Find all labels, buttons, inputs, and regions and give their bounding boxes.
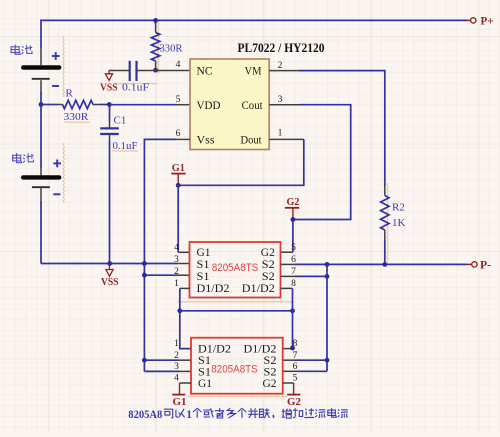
svg-text:1: 1 [186,409,192,421]
wire D net horizontal [180,310,293,312]
battery BT1 label 电池 [11,45,20,55]
terminal P- tick [466,263,471,265]
wire G1 down to U2 pin4 [177,185,179,252]
wire cap to VSS top [109,70,129,72]
battery BT2 plus sign [53,162,61,164]
svg-text:8205A8: 8205A8 [128,409,162,421]
battery BT2 negative plate [32,186,50,188]
node top rail / 330R junction [153,18,158,23]
battery BT1 negative plate [32,78,50,80]
power port VSS bottom (triangle) [109,264,111,270]
terminal P+ tick [466,19,470,21]
svg-text:5: 5 [293,374,298,384]
compile mark battery BT2 [63,143,64,203]
compile mark under U3 [188,396,287,397]
battery BT1 positive plate [23,65,59,69]
svg-text:VDD: VDD [197,98,221,112]
op-amp U1 PL7022/HY2120 body [190,59,269,150]
terminal P- circle [472,262,477,267]
wire R2 bottom to P- rail [384,241,386,265]
wire branch to U3 pin7 [296,359,327,361]
node U3 pin8 connection [290,346,295,351]
svg-text:G2: G2 [261,247,275,259]
wire branch to U2 pin2 [144,274,178,276]
node 330R bottom / NC pin4 junction [153,68,158,73]
compile mark under VSS 0.1uF [114,83,157,84]
compile mark resistor R2 [387,183,388,263]
power port G1 bottom: bar [172,394,185,396]
node R / C1 / VDD junction [107,102,112,107]
svg-text:VM: VM [245,64,262,78]
wire C1 top lead [109,105,111,122]
wire S2 vertical down to U3 [326,264,328,371]
battery BT2 label 电池 [13,153,22,163]
svg-text:8: 8 [293,339,298,349]
svg-text:3: 3 [278,95,283,105]
wire U1 pin6 to S1 rail vertical [176,138,190,140]
svg-text:4: 4 [174,374,179,384]
wire U1 pin3 Cout net [269,104,300,106]
svg-text:D1/D2: D1/D2 [197,283,230,295]
capacitor C1 plates [100,127,119,129]
battery BT1 minus sign [52,85,59,87]
svg-text:Cout: Cout [242,98,264,112]
svg-text:6: 6 [291,255,296,265]
svg-text:S2: S2 [264,355,277,367]
wire U1 pin1 Dout net [269,138,304,140]
svg-text:S2: S2 [262,259,275,271]
node branch to U2 pin2 [142,273,147,278]
svg-text:G1: G1 [172,162,185,174]
svg-text:0.1uF: 0.1uF [122,82,149,94]
svg-text:5: 5 [291,243,296,253]
power port G2 bottom: bar [287,394,300,396]
svg-text:6: 6 [293,362,298,372]
wire U3 pin4 to G1 port [180,382,192,384]
svg-text:R: R [66,88,74,100]
wire junction down to battery2 [40,105,42,169]
terminal P+ circle [471,18,476,23]
svg-text:2: 2 [174,351,179,361]
svg-text:8205A8TS: 8205A8TS [211,364,258,376]
compile mark resistor 330R top [158,21,159,74]
wire U2 pin8 to D net [281,287,293,289]
battery BT2 minus sign [53,193,60,195]
wire VDD to chip pin 5 [109,104,176,106]
node battery middle junction [39,102,44,107]
svg-text:S2: S2 [264,366,277,378]
svg-text:6: 6 [176,129,181,139]
svg-text:7: 7 [293,351,298,361]
svg-text:7: 7 [291,267,296,277]
svg-text:1: 1 [278,128,283,138]
svg-text:S2: S2 [262,271,275,283]
svg-text:P-: P- [480,258,491,272]
wire P- rail from U2 pin6 [281,263,297,265]
svg-text:Vss: Vss [197,133,215,147]
power port G1 top: bar [171,173,185,175]
svg-text:G2: G2 [263,378,277,390]
power port G2 top: bar [285,207,299,209]
compile mark battery BT1 [63,36,64,97]
svg-text:G2: G2 [287,196,300,208]
svg-text:1: 1 [174,279,179,289]
battery BT2 positive plate [23,175,59,179]
wire U1 pin2 VM net [269,70,300,72]
compile mark under U2 [178,301,294,302]
svg-text:4: 4 [174,243,179,253]
svg-text:S1: S1 [197,271,210,283]
svg-text:330R: 330R [64,111,90,123]
resistor 330R vertical top: leads [155,20,157,24]
wire C1 bottom lead down to S1 rail [109,134,111,141]
node G2 junction [291,217,296,222]
power port VSS top (triangle) [108,71,110,74]
wire U2 pin7 to S2 vertical [281,275,297,277]
node P- rail / S2 vertical [325,262,330,267]
svg-text:G2: G2 [287,396,301,408]
wire G2 down to U2 pin5 [292,220,294,253]
svg-text:S1: S1 [198,355,211,367]
svg-text:VSS: VSS [101,277,119,288]
node D net right [290,308,295,313]
wire U2 pin1 D net [180,287,190,289]
svg-text:S1: S1 [197,259,210,271]
svg-text:3: 3 [174,255,179,265]
svg-text:330R: 330R [160,43,184,55]
node G1 junction [176,183,181,188]
capacitor 0.1uF top plates [129,61,131,81]
svg-text:4: 4 [176,60,181,70]
wire battery1 top lead [40,20,42,48]
wire to U3 pin6 [296,370,327,372]
compile mark under C1 0.1uF [112,150,138,151]
wire pin4 NC net [138,70,191,72]
svg-text:D1/D2: D1/D2 [242,283,275,295]
wire R left lead [41,104,57,106]
transistor U2 8205A8TS body [190,242,281,298]
svg-text:PL7022 / HY2120: PL7022 / HY2120 [238,41,325,55]
svg-text:3: 3 [174,362,179,372]
transistor U3 8205A8TS body [191,338,283,394]
svg-text:VSS: VSS [100,83,118,94]
svg-text:1K: 1K [392,217,406,229]
svg-text:NC: NC [197,64,213,78]
svg-text:C1: C1 [114,115,127,127]
node D net left [177,308,182,313]
resistor 330R vertical zigzag [151,33,159,62]
power port G1 top: stem [177,174,179,186]
wire battery1 to battery2 [40,80,42,93]
wire branch to U3 pin2 [144,359,179,361]
wire battery2 minus down and right to S1 rail [40,188,42,203]
svg-text:G1: G1 [197,247,211,259]
wire S1 rail horizontal [41,263,178,265]
wire vertical continues to 8205 chips [143,264,145,372]
svg-text:2: 2 [278,61,283,71]
power port G2 top: stem [292,208,294,220]
resistor R 330R horizontal zigzag [63,100,94,108]
node branch to U3 pin2 [142,358,147,363]
resistor R2 leads [384,185,386,196]
svg-text:G1: G1 [173,396,187,408]
wire to U3 pin3 [144,370,179,372]
svg-text:2: 2 [174,267,179,277]
svg-text:S1: S1 [198,366,211,378]
compile mark under 330R label [64,122,90,123]
wire U3 pin5 to G2 port [283,382,294,384]
battery BT1 plus sign [52,55,60,57]
node U3 pin7 branch [325,358,330,363]
svg-text:0.1uF: 0.1uF [113,140,138,152]
svg-text:P+: P+ [481,14,494,28]
svg-text:G1: G1 [198,378,212,390]
svg-text:5: 5 [176,95,181,105]
node S1 rail crossing [142,261,147,266]
wire P+ top rail [40,19,466,21]
node C1 / VSS port junction [107,261,112,266]
svg-text:D1/D2: D1/D2 [244,343,277,355]
svg-text:8205A8TS: 8205A8TS [212,262,259,274]
resistor R2 zigzag [381,196,389,231]
svg-text:R2: R2 [392,202,405,214]
svg-text:D1/D2: D1/D2 [198,343,231,355]
svg-text:8: 8 [291,279,296,289]
svg-text:1: 1 [174,339,179,349]
node S2 vertical / pin7 [325,274,330,279]
wire R right lead [93,104,99,106]
svg-text:Dout: Dout [241,133,263,147]
node P- rail / R2 [382,262,387,267]
